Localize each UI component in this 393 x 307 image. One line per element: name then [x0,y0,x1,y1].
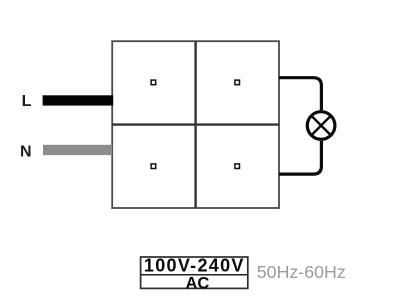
lamp E1 (circle) [307,112,335,140]
svg-text:AC: AC [185,274,209,292]
svg-text:L: L [22,93,32,110]
divider horizontal (module internal partition) [112,123,279,125]
terminal square cell 3 (bottom-left) [151,164,156,169]
wire load top (module to lamp) [279,78,321,111]
module box U1 (4-gang switch module outline) [112,41,279,208]
terminal square cell 2 (top-right) [235,80,240,85]
divider vertical (module internal partition) [194,41,196,208]
svg-text:100V-240V: 100V-240V [144,255,245,275]
wire N (neutral, gray) [43,145,112,155]
lamp E1 cross [312,116,331,135]
terminal square cell 1 (top-left) [151,80,156,85]
wire L (live, black) [43,95,114,105]
wire load bottom (lamp to module) [279,141,321,174]
ratings box [141,257,248,288]
terminal square cell 4 (bottom-right) [235,164,240,169]
ratings divider line [141,274,248,276]
svg-text:50Hz-60Hz: 50Hz-60Hz [257,262,346,282]
svg-text:N: N [20,144,32,161]
